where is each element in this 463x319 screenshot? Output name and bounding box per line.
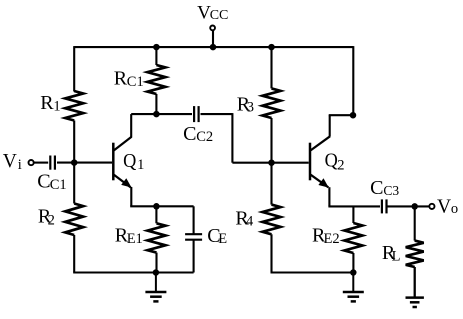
wire CE bottom stub [193,240,195,273]
node Vo junction [411,203,418,210]
resistor RE1 [148,223,166,252]
node rail R3 junction [268,44,275,51]
svg-text:CC: CC [210,8,229,23]
bottom left ground wire [73,271,193,273]
wire CC1 to base Q1 [57,162,112,164]
svg-text:2: 2 [337,157,344,173]
svg-text:1: 1 [137,157,144,173]
node RE2 ground junction [350,269,357,276]
svg-text:L: L [392,248,401,264]
svg-text:Q: Q [123,150,137,172]
svg-text:R: R [114,68,128,90]
wire R2 bottom [73,235,75,273]
svg-text:C1: C1 [50,177,67,193]
node collector junction [153,111,160,118]
wire VCC stem [212,31,214,47]
svg-text:C: C [370,177,383,199]
svg-text:C: C [37,170,50,192]
wire CE top stub [193,206,195,234]
resistor R2 [65,204,83,236]
svg-text:V: V [3,151,17,172]
svg-text:C: C [183,123,196,145]
svg-text:2: 2 [48,212,55,228]
svg-text:4: 4 [246,214,254,230]
wire R3 bottom to node [270,118,272,163]
wire Q1 emitter [130,187,132,206]
wire RE2 top stub [352,206,354,223]
node rail VCC junction [210,44,217,51]
wire RL top stub [414,206,416,240]
svg-text:R: R [40,92,54,114]
capacitor CC3 [381,199,383,213]
ground under RL [414,267,416,298]
wire Vi to CC1 [34,162,48,164]
wire Q2 emitter rail [328,205,380,207]
ground left [155,273,157,293]
svg-text:Q: Q [325,150,339,172]
svg-text:E1: E1 [127,231,143,247]
node Q2 collector junction [350,112,357,119]
wire R1 to input node [73,121,75,163]
top rail wire [74,46,353,48]
resistor RE2 [344,223,362,253]
wire node to R4 [270,163,272,205]
wire collector node to CC2 [131,113,192,115]
resistor R3 [263,88,281,118]
wire R4 bottom [270,234,272,272]
node rail RC1 junction [153,44,160,51]
svg-text:C2: C2 [196,129,213,145]
terminal VCC [210,26,215,31]
resistor R4 [263,205,281,235]
wire R3 top stub [270,47,272,88]
wire input node to R2 [73,163,75,204]
wire RC1 top stub [155,47,157,65]
node ground junction left [153,269,160,276]
wire right rail drop [352,46,354,115]
svg-text:V: V [437,196,451,217]
node RE1 top junction [153,203,160,210]
wire CC2 to Q2 base [201,113,233,115]
wire RE1 bottom [155,253,157,273]
wire RE1 top stub [155,206,157,223]
transistor Q1 [112,143,115,181]
svg-text:C3: C3 [383,183,399,198]
wire CC3 to Vo [387,205,429,207]
resistor R1 [65,91,83,121]
capacitor CC1 [49,156,51,170]
resistor RC1 [147,65,165,94]
node R3 R4 base junction [268,159,275,166]
svg-text:E2: E2 [324,231,340,247]
wire Q2 emitter [328,187,330,206]
wire collector elbow [329,114,355,116]
svg-text:3: 3 [247,100,254,116]
node input junction [71,159,78,166]
wire RC1 bottom stub [155,94,157,114]
svg-text:E: E [218,231,227,247]
wire RE2 bottom [352,253,354,273]
svg-text:C1: C1 [127,74,144,90]
terminal Vo [429,204,434,209]
wire emitter node rail [130,205,193,207]
wire RL bottom [414,267,416,298]
capacitor CC2 [193,106,195,122]
wire Q1 collector [130,114,132,137]
wire R1 top stub [73,46,75,91]
resistor RL [406,241,424,267]
ground under RE2 [352,273,354,293]
terminal Vi [29,160,34,165]
capacitor CE [185,233,202,235]
transistor Q2 [309,143,312,181]
svg-text:1: 1 [53,99,60,115]
svg-text:o: o [451,201,458,217]
svg-text:i: i [18,157,22,173]
